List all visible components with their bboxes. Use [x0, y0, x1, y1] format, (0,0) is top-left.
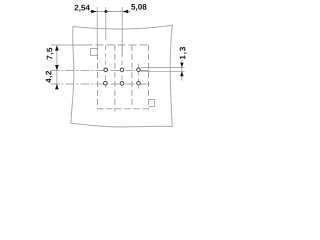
label 1,3 (rotated) — [180, 47, 187, 59]
pin hole row1 col2 — [120, 68, 124, 72]
tangent line hole top — [141, 67, 185, 69]
extension line column 1 — [105, 7, 107, 40]
centre line row 2 — [51, 83, 150, 85]
centre line column 1 — [105, 46, 107, 89]
pin hole row2 col2 — [120, 82, 124, 86]
latch lug bottom-right — [148, 100, 155, 107]
pin hole row1 col1 — [104, 68, 108, 72]
extension line column 2 — [121, 7, 123, 56]
label 7,5 (rotated) — [47, 48, 54, 60]
label 4,2 (rotated) — [46, 71, 53, 83]
centre line row 1 — [51, 69, 150, 71]
PCB board fragment outline — [71, 25, 172, 127]
left dimension vertical line — [56, 45, 58, 88]
housing bottom edge — [98, 108, 149, 110]
connector housing dashed outline — [85, 45, 149, 112]
arrow down at 67.5 — [180, 63, 183, 68]
housing top edge — [85, 44, 149, 46]
centre line column 3 — [138, 64, 140, 89]
pin hole row1 col3 (dia 1,3) — [137, 68, 141, 72]
column centre lines — [106, 46, 139, 89]
pole divider 2 — [131, 45, 133, 109]
arrow up at 84.0 — [55, 84, 59, 89]
shared dot — [105, 10, 108, 13]
right dimension vertical line — [181, 60, 183, 81]
row centre lines — [51, 70, 150, 84]
centre line column 2 — [121, 46, 123, 89]
hole tangent lines for 1,3 — [141, 68, 185, 72]
pole divider 1 — [114, 45, 116, 112]
latch lug top-left — [91, 49, 98, 56]
pin hole row2 col1 — [104, 81, 108, 85]
arrow up at 45.2 — [55, 45, 59, 50]
label 2,54 — [74, 5, 89, 12]
arrow right (5,08) — [123, 10, 129, 13]
arrow down at 70.4 — [55, 65, 59, 70]
top dimension line — [90, 11, 131, 13]
housing left edge — [97, 45, 99, 109]
extension line top (housing edge) — [51, 44, 85, 46]
tangent line hole bottom — [141, 70, 185, 72]
arrow up at 71.3 — [180, 71, 183, 76]
pin hole row2 col3 — [137, 81, 141, 85]
label 5,08 — [131, 4, 146, 11]
extension lines from top dimension — [97, 7, 122, 56]
arrow left (2,54) — [91, 10, 97, 13]
housing right edge — [148, 45, 150, 109]
extension line housing edge — [96, 7, 98, 45]
